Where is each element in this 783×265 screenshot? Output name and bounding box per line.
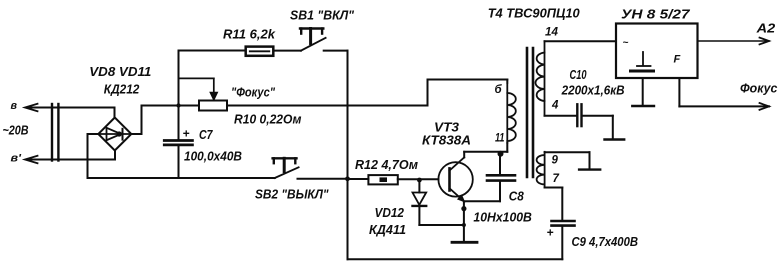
svg-text:+: + (183, 127, 190, 141)
svg-text:КД411: КД411 (369, 222, 406, 237)
svg-text:"Фокус": "Фокус" (231, 85, 276, 100)
svg-text:9: 9 (552, 155, 559, 167)
svg-text:Фокус: Фокус (740, 81, 778, 96)
svg-text:в': в' (11, 153, 22, 165)
svg-text:А2: А2 (756, 21, 776, 36)
svg-text:С8: С8 (509, 189, 525, 204)
svg-text:11: 11 (495, 133, 505, 145)
svg-text:в: в (11, 100, 18, 112)
svg-text:С9 4,7х400В: С9 4,7х400В (572, 234, 639, 249)
svg-text:14: 14 (545, 27, 559, 39)
svg-text:КТ838А: КТ838А (422, 133, 471, 148)
svg-text:10Нх100В: 10Нх100В (473, 210, 532, 225)
svg-text:R10 0,22Ом: R10 0,22Ом (234, 112, 302, 127)
svg-text:SВ2 "ВЫКЛ": SВ2 "ВЫКЛ" (255, 187, 329, 202)
svg-text:Т4 ТВС90ПЦ10: Т4 ТВС90ПЦ10 (488, 6, 581, 21)
svg-text:100,0х40В: 100,0х40В (184, 149, 242, 164)
svg-text:4: 4 (551, 100, 559, 112)
svg-text:7: 7 (553, 173, 560, 185)
svg-text:+: + (547, 226, 554, 240)
svg-text:R12 4,7Ом: R12 4,7Ом (355, 157, 418, 172)
svg-text:SВ1 "ВКЛ": SВ1 "ВКЛ" (290, 8, 355, 23)
svg-text:R11 6,2k: R11 6,2k (223, 27, 276, 42)
svg-text:2200х1,6кВ: 2200х1,6кВ (561, 83, 625, 98)
svg-text:УН 8 5/27: УН 8 5/27 (621, 7, 690, 22)
svg-text:С7: С7 (199, 127, 213, 142)
svg-text:С10: С10 (570, 67, 588, 82)
svg-text:VD8 VD11: VD8 VD11 (89, 64, 151, 79)
svg-text:б: б (495, 84, 503, 96)
svg-text:КД212: КД212 (104, 82, 140, 97)
svg-text:~: ~ (623, 38, 629, 49)
svg-text:~20В: ~20В (3, 123, 29, 138)
svg-text:VD12: VD12 (375, 205, 405, 220)
svg-text:F: F (674, 54, 681, 66)
